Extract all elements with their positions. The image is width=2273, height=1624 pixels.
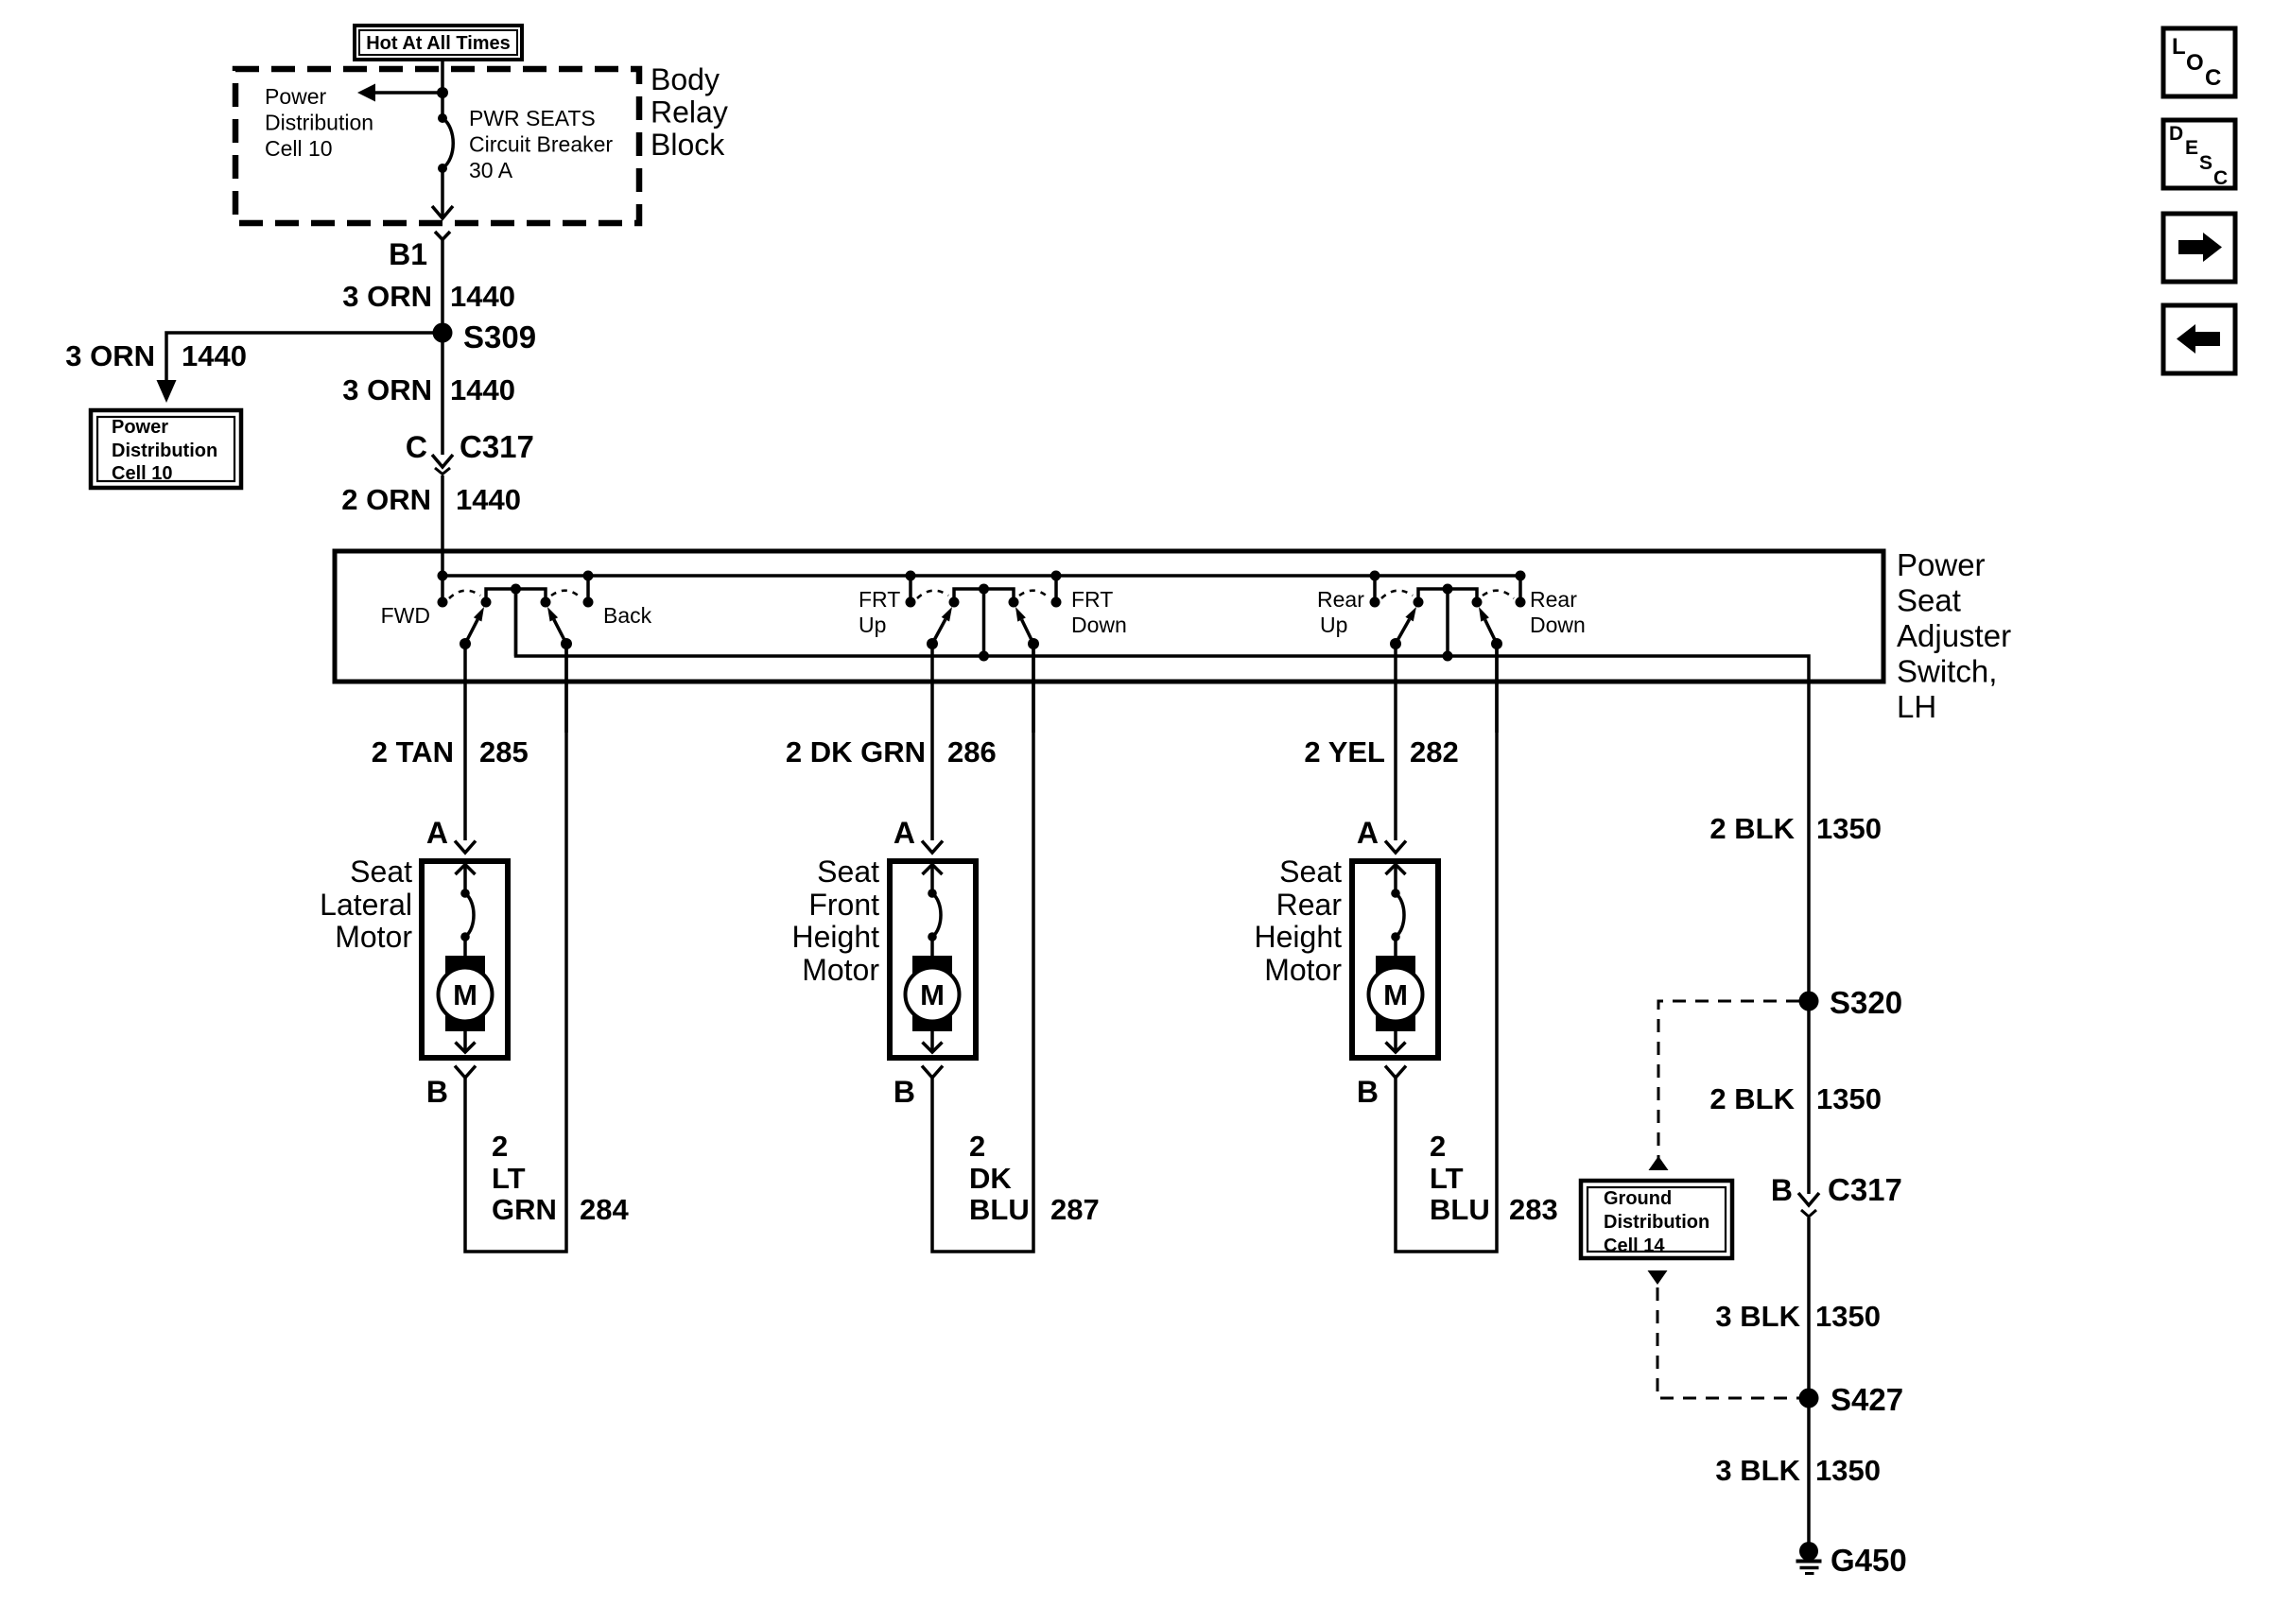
- switch bridge and center tap FWD/Back: [481, 584, 551, 657]
- svg-text:M: M: [1383, 978, 1408, 1011]
- svg-text:DK: DK: [969, 1162, 1012, 1195]
- connector chevron pin B: [455, 1066, 476, 1079]
- node label FRT Up: [859, 587, 900, 637]
- connector chevron pin B: [922, 1066, 943, 1079]
- svg-text:Relay: Relay: [651, 95, 728, 130]
- svg-text:2 TAN: 2 TAN: [372, 735, 454, 769]
- motor Seat Lateral Motor: [422, 861, 508, 1058]
- svg-text:Down: Down: [1530, 613, 1586, 637]
- svg-text:Down: Down: [1071, 613, 1127, 637]
- svg-text:FRT: FRT: [859, 587, 900, 612]
- pin label B: [1771, 1173, 1793, 1207]
- splice S309: [433, 320, 537, 354]
- svg-text:282: 282: [1410, 735, 1459, 769]
- svg-text:Cell 10: Cell 10: [112, 463, 172, 484]
- splice S320: [1799, 985, 1903, 1020]
- circuit breaker PWR SEATS 30 A: [438, 113, 453, 173]
- svg-text:1350: 1350: [1815, 1454, 1881, 1487]
- svg-text:Height: Height: [1255, 920, 1343, 954]
- wire label 3 BLK 1350: [1715, 1300, 1881, 1333]
- wire label 2 TAN 285: [372, 735, 529, 769]
- svg-text:3 BLK: 3 BLK: [1715, 1454, 1800, 1487]
- wire label 2 LT BLU 283: [1430, 1130, 1558, 1226]
- pin label B: [426, 1075, 448, 1109]
- pin label B: [894, 1075, 915, 1109]
- svg-text:Block: Block: [651, 128, 725, 162]
- svg-text:Switch,: Switch,: [1897, 654, 1997, 689]
- icon DESC: [2163, 120, 2235, 189]
- svg-text:Motor: Motor: [1264, 953, 1342, 987]
- dashed reference wire S320 to Ground Distribution: [1649, 1001, 1800, 1170]
- pin label A: [1357, 816, 1379, 850]
- wire 3 ORN 1440 (S309 to C317): [441, 336, 444, 455]
- wire from breaker to block edge: [441, 168, 444, 218]
- wire branch to Power Distribution Cell 10: [157, 333, 443, 403]
- wire label 2 DK BLU 287: [969, 1130, 1100, 1226]
- wire 2 ORN 1440 (C317 to switch): [441, 475, 444, 576]
- svg-text:Front: Front: [808, 888, 879, 922]
- switch contacts Rear Up/Rear Down : bus taps: [1370, 571, 1526, 608]
- mechanical link (dashed) FRT Up/FRT Down: [917, 591, 1050, 598]
- svg-text:Cell 10: Cell 10: [265, 136, 333, 161]
- svg-text:A: A: [894, 816, 915, 850]
- wire to pin A of Seat Rear Height Motor: [1394, 733, 1397, 840]
- svg-text:Power: Power: [1897, 547, 1986, 582]
- connector label C317: [1828, 1172, 1902, 1207]
- wire label 3 BLK 1350 (lower): [1715, 1454, 1881, 1487]
- svg-text:S320: S320: [1830, 985, 1902, 1020]
- pin label B: [1357, 1075, 1379, 1109]
- out-arrow at block edge: [432, 206, 453, 218]
- wire label 3 ORN 1440 (lower): [342, 373, 515, 406]
- svg-text:S: S: [2199, 152, 2212, 174]
- svg-text:G450: G450: [1831, 1543, 1907, 1578]
- svg-text:C: C: [2205, 65, 2221, 91]
- off-page box Ground Distribution Cell 14: [1581, 1181, 1732, 1258]
- svg-text:1440: 1440: [182, 339, 247, 372]
- svg-text:Power: Power: [265, 84, 327, 109]
- label Power Seat Adjuster Switch, LH: [1897, 547, 2011, 724]
- svg-text:3 BLK: 3 BLK: [1715, 1300, 1800, 1333]
- switch contacts FWD/Back : bus taps: [438, 571, 594, 608]
- label Seat Rear Height Motor: [1255, 855, 1343, 987]
- wire 2 BLK 1350 (switch to S320): [1807, 682, 1811, 1001]
- svg-text:Rear: Rear: [1530, 587, 1577, 612]
- svg-text:FWD: FWD: [381, 603, 430, 628]
- svg-text:Circuit Breaker: Circuit Breaker: [469, 132, 613, 157]
- svg-text:Power: Power: [112, 417, 168, 438]
- svg-text:S427: S427: [1831, 1382, 1903, 1417]
- mechanical link (dashed) FWD/Back: [449, 591, 581, 598]
- wire 3 ORN 1440 (B1 to S309): [441, 240, 444, 337]
- svg-text:FRT: FRT: [1071, 587, 1113, 612]
- svg-text:C317: C317: [460, 429, 534, 464]
- switch wiper arms FWD/Back: [460, 607, 572, 649]
- svg-text:3 ORN: 3 ORN: [342, 373, 432, 406]
- svg-text:2 YEL: 2 YEL: [1304, 735, 1385, 769]
- connector chevron pin A: [922, 841, 943, 854]
- wires from wipers out of switch FRT Up/FRT Down: [932, 644, 1033, 733]
- svg-text:2: 2: [492, 1130, 508, 1163]
- wire 3 BLK 1350 (C317 to S427): [1807, 1218, 1811, 1398]
- svg-text:L: L: [2172, 34, 2186, 60]
- wire 2 BLK 1350 (S320 to C317): [1807, 1001, 1811, 1194]
- node label Rear Up: [1317, 587, 1364, 637]
- svg-text:M: M: [453, 978, 477, 1011]
- svg-text:Distribution: Distribution: [1604, 1212, 1709, 1233]
- svg-text:Lateral: Lateral: [320, 888, 412, 922]
- connector C317 pin C: [432, 455, 453, 475]
- svg-text:30 A: 30 A: [469, 158, 513, 182]
- svg-text:2 BLK: 2 BLK: [1709, 1082, 1795, 1115]
- ground G450: [1796, 1542, 1907, 1578]
- svg-text:M: M: [920, 978, 945, 1011]
- Power Seat Adjuster Switch LH (enclosure): [335, 551, 1883, 682]
- switch bridge and center tap Rear Up/Rear Down: [1414, 584, 1483, 662]
- svg-text:Rear: Rear: [1317, 587, 1364, 612]
- svg-text:1440: 1440: [450, 373, 515, 406]
- node label Rear Down: [1530, 587, 1586, 637]
- mechanical link (dashed) Rear Up/Rear Down: [1381, 591, 1514, 598]
- svg-text:LT: LT: [492, 1162, 526, 1195]
- svg-text:284: 284: [580, 1193, 629, 1226]
- svg-text:PWR SEATS: PWR SEATS: [469, 106, 596, 130]
- svg-text:Ground: Ground: [1604, 1188, 1672, 1209]
- svg-text:GRN: GRN: [492, 1193, 557, 1226]
- svg-text:B: B: [894, 1075, 915, 1109]
- svg-text:287: 287: [1050, 1193, 1100, 1226]
- connector chevron pin A: [1385, 841, 1406, 854]
- svg-text:Motor: Motor: [335, 920, 412, 954]
- svg-text:1440: 1440: [450, 280, 515, 313]
- svg-text:O: O: [2186, 50, 2204, 76]
- wire power bus inside switch: [442, 574, 1520, 578]
- svg-text:C: C: [406, 430, 427, 464]
- svg-text:E: E: [2185, 137, 2198, 159]
- wire common return rail inside switch: [516, 589, 1810, 682]
- icon next arrow: [2163, 214, 2235, 282]
- switch wiper arms FRT Up/FRT Down: [927, 607, 1039, 649]
- wire label 2 ORN 1440: [341, 483, 521, 516]
- svg-text:2: 2: [969, 1130, 985, 1163]
- connector C317 pin B: [1798, 1193, 1819, 1217]
- svg-text:Body: Body: [651, 62, 720, 96]
- motor Seat Front Height Motor: [890, 861, 976, 1058]
- svg-text:2 BLK: 2 BLK: [1709, 812, 1795, 845]
- wire label 2 DK GRN 286: [786, 735, 997, 769]
- pin label A: [426, 816, 448, 850]
- svg-text:Height: Height: [792, 920, 880, 954]
- wire 3 BLK 1350 (S427 to G450): [1807, 1398, 1811, 1551]
- reference text Power Distribution Cell 10 (in relay block): [265, 84, 373, 161]
- dashed reference wire Ground Distribution to S427: [1648, 1270, 1800, 1398]
- svg-text:C: C: [2213, 167, 2228, 189]
- svg-text:Up: Up: [859, 613, 886, 637]
- svg-text:B1: B1: [389, 237, 427, 271]
- svg-text:A: A: [1357, 816, 1379, 850]
- wire label 2 YEL 282: [1304, 735, 1458, 769]
- wire label 2 LT GRN 284: [492, 1130, 629, 1226]
- svg-text:Motor: Motor: [802, 953, 879, 987]
- Body Relay Block (dashed boundary): [235, 69, 639, 223]
- icon previous arrow: [2163, 305, 2235, 373]
- svg-text:LT: LT: [1430, 1162, 1464, 1195]
- wires from wipers out of switch FWD/Back: [465, 644, 566, 733]
- svg-text:BLU: BLU: [1430, 1193, 1490, 1226]
- svg-text:3 ORN: 3 ORN: [342, 280, 432, 313]
- svg-text:Rear: Rear: [1276, 888, 1343, 922]
- svg-text:Seat: Seat: [1279, 855, 1342, 889]
- node label Back: [603, 603, 652, 628]
- connector pin B1: [435, 232, 450, 240]
- wire label 3 ORN 1440: [342, 280, 515, 313]
- junction node (feed to Power Distribution): [437, 87, 448, 98]
- svg-text:1350: 1350: [1816, 1082, 1882, 1115]
- wire to pin A of Seat Front Height Motor: [930, 733, 934, 840]
- svg-text:1440: 1440: [456, 483, 521, 516]
- svg-text:Seat: Seat: [350, 855, 412, 889]
- switch wiper arms Rear Up/Rear Down: [1390, 607, 1502, 649]
- svg-text:C317: C317: [1828, 1172, 1902, 1207]
- pin label A: [894, 816, 915, 850]
- svg-text:285: 285: [479, 735, 529, 769]
- svg-text:Cell 14: Cell 14: [1604, 1235, 1665, 1256]
- icon LOC: [2163, 28, 2235, 96]
- wire label 2 BLK 1350: [1709, 812, 1882, 845]
- svg-text:283: 283: [1509, 1193, 1558, 1226]
- svg-text:2 ORN: 2 ORN: [341, 483, 431, 516]
- wire from Hot At All Times into relay block: [441, 60, 444, 118]
- svg-text:1350: 1350: [1815, 1300, 1881, 1333]
- wire pin B return loop of Seat Front Height Motor: [932, 644, 1033, 1252]
- svg-text:Seat: Seat: [817, 855, 879, 889]
- wire pin B return loop of Seat Rear Height Motor: [1396, 644, 1497, 1252]
- svg-text:286: 286: [947, 735, 997, 769]
- connector chevron pin B: [1385, 1066, 1406, 1079]
- svg-text:2 DK GRN: 2 DK GRN: [786, 735, 926, 769]
- svg-text:2: 2: [1430, 1130, 1446, 1163]
- svg-text:BLU: BLU: [969, 1193, 1030, 1226]
- wire to pin A of Seat Lateral Motor: [463, 733, 467, 840]
- wire label 2 BLK 1350 (lower): [1709, 1082, 1882, 1115]
- svg-text:B: B: [1771, 1173, 1793, 1207]
- svg-text:3 ORN: 3 ORN: [65, 339, 155, 372]
- svg-text:Distribution: Distribution: [265, 111, 373, 135]
- motor Seat Rear Height Motor: [1352, 861, 1438, 1058]
- pin label C: [406, 430, 427, 464]
- svg-text:S309: S309: [463, 320, 536, 354]
- connector label C317: [460, 429, 534, 464]
- node label FRT Down: [1071, 587, 1127, 637]
- pin label B1: [389, 237, 427, 271]
- svg-text:Hot At All Times: Hot At All Times: [366, 33, 511, 54]
- off-page box Power Distribution Cell 10: [91, 410, 241, 488]
- splice S427: [1799, 1382, 1904, 1417]
- node label FWD: [381, 603, 430, 628]
- wire pin B return loop of Seat Lateral Motor: [465, 644, 566, 1252]
- svg-text:1350: 1350: [1816, 812, 1882, 845]
- power tag "Hot At All Times": [355, 26, 522, 60]
- label Seat Front Height Motor: [792, 855, 880, 987]
- svg-text:Up: Up: [1320, 613, 1347, 637]
- label Seat Lateral Motor: [320, 855, 412, 954]
- svg-text:D: D: [2169, 123, 2183, 145]
- switch contacts FRT Up/FRT Down : bus taps: [906, 571, 1062, 608]
- svg-text:Adjuster: Adjuster: [1897, 618, 2011, 653]
- wire label 3 ORN 1440 (branch): [65, 339, 247, 372]
- switch bridge and center tap FRT Up/FRT Down: [949, 584, 1019, 662]
- wires from wipers out of switch Rear Up/Rear Down: [1396, 644, 1497, 733]
- connector chevron pin A: [455, 841, 476, 854]
- svg-text:LH: LH: [1897, 689, 1936, 724]
- label PWR SEATS Circuit Breaker 30 A: [469, 106, 613, 182]
- svg-text:Back: Back: [603, 603, 652, 628]
- svg-text:Seat: Seat: [1897, 583, 1961, 618]
- svg-text:B: B: [1357, 1075, 1379, 1109]
- label Body Relay Block: [651, 62, 728, 162]
- svg-text:A: A: [426, 816, 448, 850]
- svg-text:B: B: [426, 1075, 448, 1109]
- svg-text:Distribution: Distribution: [112, 441, 217, 461]
- arrow to Power Distribution Cell 10: [357, 84, 442, 102]
